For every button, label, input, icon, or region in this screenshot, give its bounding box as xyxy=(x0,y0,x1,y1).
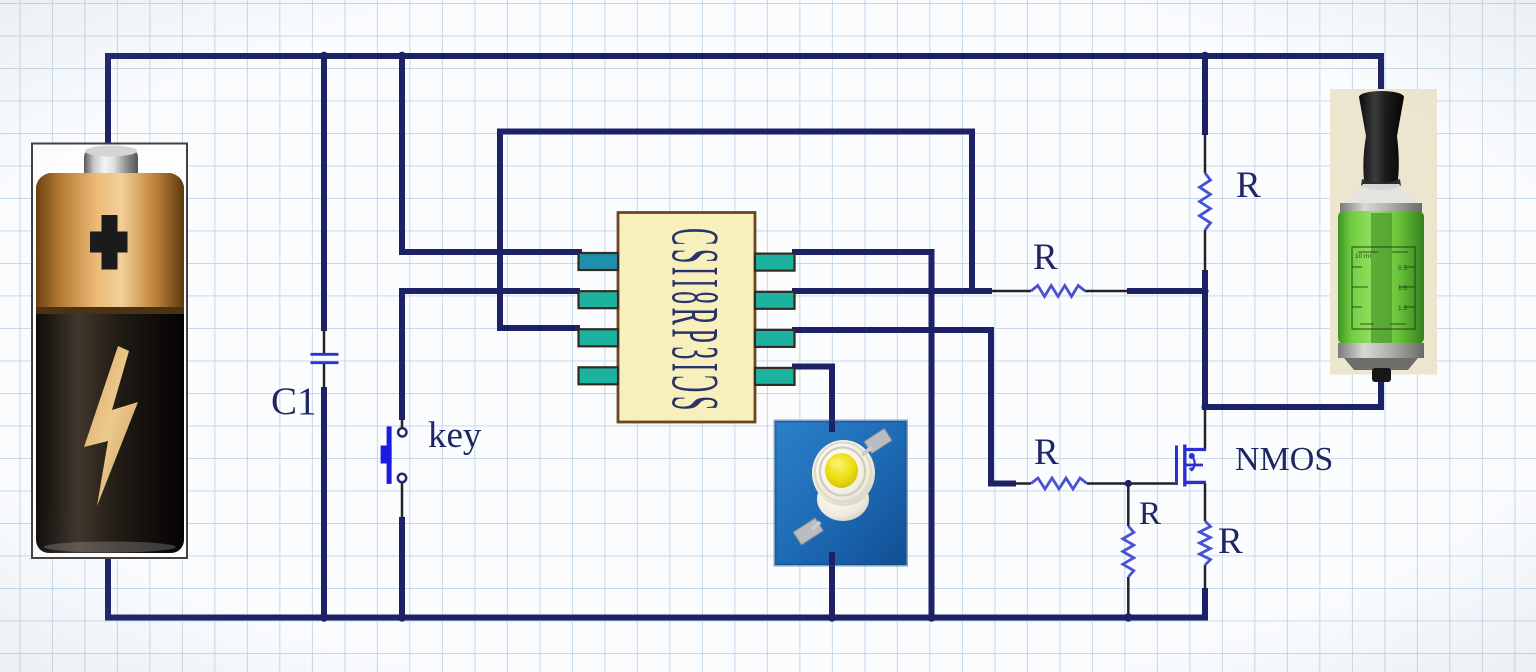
wire capacitor C1 branch lower xyxy=(321,387,327,618)
lead MOSFET source xyxy=(1204,483,1207,521)
IC label CSII8RP3I2S xyxy=(657,228,732,414)
wire pin R1 net down to bottom rail xyxy=(792,252,932,615)
junction top rail right xyxy=(1201,52,1209,60)
IC pin L2 xyxy=(579,291,619,308)
wire pin R2 to resistor lead xyxy=(792,288,992,294)
pushbutton key xyxy=(381,426,407,484)
lead capacitor C1 lower xyxy=(323,364,326,388)
junction top rail L1 xyxy=(398,52,406,60)
resistor R4 zigzag (gate pulldown) xyxy=(1123,526,1134,577)
junction bottom rail LED xyxy=(828,613,836,621)
junction bottom rail R1 net xyxy=(927,613,935,621)
wire resistor R mid to right vertical xyxy=(1127,288,1205,294)
junction bottom rail pulldown xyxy=(1124,613,1132,621)
IC pin R3 xyxy=(755,330,795,347)
battery BT1 photo xyxy=(32,144,187,559)
wire bottom rail xyxy=(108,536,1205,618)
lead capacitor C1 upper xyxy=(323,330,326,353)
wire pin R4 to LED top xyxy=(792,367,832,433)
lead resistor R mid left xyxy=(990,290,1031,293)
transistor NMOS symbol xyxy=(1177,445,1207,487)
junction top rail C1 xyxy=(320,52,328,60)
wire atomizer bottom link xyxy=(1205,382,1381,407)
junction gate pulldown xyxy=(1125,480,1132,487)
lead resistor R pulldown upper xyxy=(1127,484,1130,527)
resistor R1 zigzag (top right) xyxy=(1200,173,1211,230)
junction bottom rail key xyxy=(398,613,406,621)
IC pin R1 xyxy=(755,254,795,271)
lead resistor R gate right to MOSFET gate xyxy=(1087,482,1175,485)
resistor R3 zigzag (gate series) xyxy=(1031,478,1087,489)
resistor R2 zigzag (mid horizontal) xyxy=(1031,286,1085,297)
wire right vertical mid segment xyxy=(1202,270,1208,410)
wire key net: pin L2 to switch xyxy=(402,291,580,420)
IC pin R4 xyxy=(755,368,795,385)
atomizer photo xyxy=(1330,89,1437,382)
IC U1 body xyxy=(618,213,755,423)
wire LED bottom to rail xyxy=(829,554,835,618)
IC pin L1 xyxy=(579,253,619,270)
wire pin L1 net from top rail xyxy=(402,56,582,252)
lead resistor R top lower xyxy=(1204,230,1207,272)
junction bottom rail C1 xyxy=(320,613,328,621)
LED D1 photo xyxy=(775,421,907,565)
lead resistor R source lower xyxy=(1204,565,1207,590)
junction right vertical at atomizer link xyxy=(1201,403,1208,410)
lead resistor R gate left xyxy=(1014,482,1031,485)
wire right vertical upper segment xyxy=(1202,56,1208,135)
lead MOSFET drain xyxy=(1204,408,1207,450)
lead resistor R top upper xyxy=(1204,133,1207,173)
wire rail2 net: pin L3 up-over to junction above R2 xyxy=(500,132,972,329)
wire key lower to bottom rail xyxy=(399,517,405,618)
wire top rail (battery + to atomizer top) xyxy=(108,56,1381,150)
lead key upper xyxy=(401,419,404,427)
wire capacitor C1 branch upper xyxy=(321,53,327,331)
IC pin L3 xyxy=(579,329,619,346)
lead resistor R pulldown lower xyxy=(1127,577,1130,617)
junction right vertical at R2 xyxy=(1201,287,1208,294)
lead resistor R mid right xyxy=(1085,290,1128,293)
wire gate net: pin R3 down-over to MOSFET gate xyxy=(792,330,1016,484)
capacitor C1 plates xyxy=(311,354,339,362)
lead key lower xyxy=(401,483,404,518)
IC pin L4 xyxy=(579,367,619,384)
wire right vertical bottom thick xyxy=(1202,588,1208,618)
IC pin R2 xyxy=(755,292,795,309)
resistor R5 zigzag (source) xyxy=(1200,521,1211,565)
